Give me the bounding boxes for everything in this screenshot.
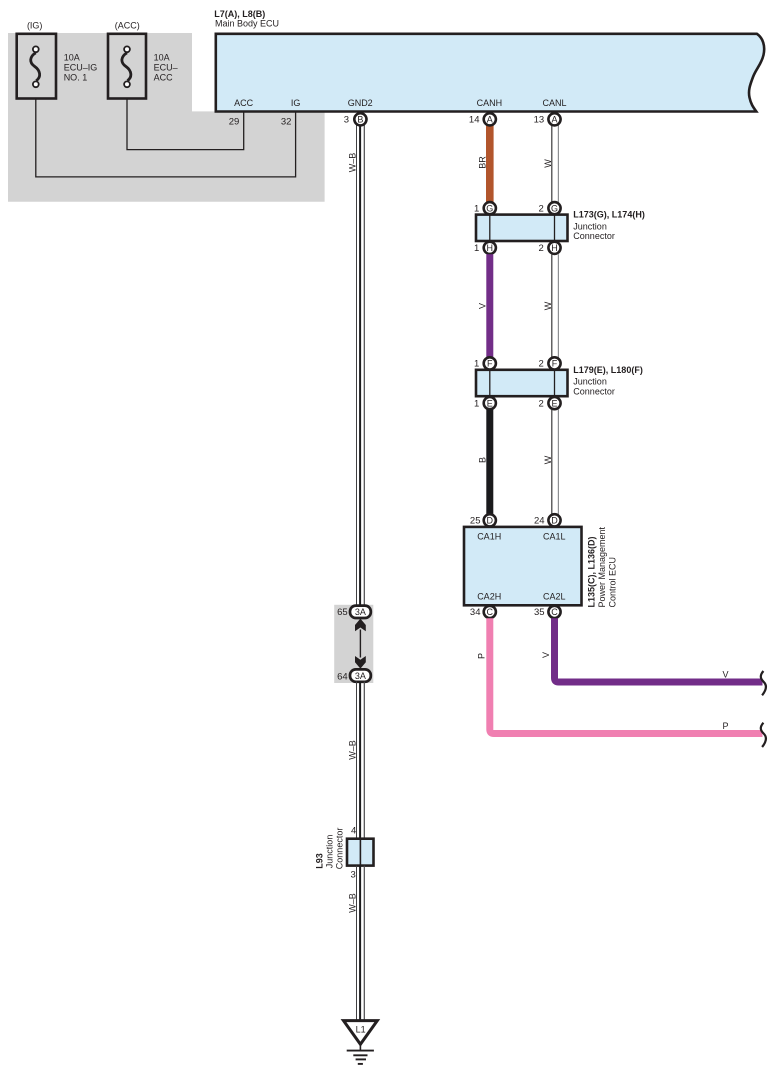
svg-text:3: 3 (344, 114, 349, 125)
svg-text:25: 25 (470, 515, 481, 526)
wire GND2 W-B segment 3 (L93 to ground L1) (357, 866, 365, 1021)
svg-text:C: C (551, 607, 558, 617)
svg-text:V: V (541, 652, 551, 658)
svg-text:29: 29 (229, 117, 240, 128)
svg-text:32: 32 (281, 117, 292, 128)
svg-text:IG: IG (291, 98, 301, 108)
svg-text:W–B: W–B (348, 893, 358, 913)
svg-text:GND2: GND2 (348, 98, 373, 108)
svg-text:BR: BR (478, 156, 488, 169)
junction connector L93 box (347, 839, 374, 866)
svg-text:1: 1 (474, 243, 479, 254)
svg-text:2: 2 (539, 203, 544, 214)
harness shading panel (8, 33, 325, 202)
continuation squiggle P (761, 723, 766, 747)
svg-text:E: E (551, 398, 557, 408)
ground bars (347, 1051, 374, 1064)
svg-text:2: 2 (539, 359, 544, 370)
svg-text:Connector: Connector (335, 828, 345, 870)
svg-text:P: P (477, 653, 487, 659)
svg-text:D: D (551, 515, 558, 525)
wire GND2 W-B segment 1 (pin 3B to connector 65) (357, 123, 365, 606)
continuation squiggle V (761, 671, 766, 695)
junction connector L179(E), L180(F) box (476, 370, 568, 396)
svg-text:14: 14 (469, 114, 480, 125)
wire B segment (E to D) (486, 409, 493, 514)
svg-text:Junction: Junction (573, 377, 607, 387)
svg-text:CA2H: CA2H (477, 592, 501, 602)
svg-text:CANL: CANL (542, 98, 566, 108)
wire GND2 W-B segment 2 (connector 64 to L93) (357, 682, 365, 840)
fuse (IG) 10A ECU-IG NO. 1 (17, 34, 56, 99)
svg-text:H: H (487, 243, 494, 253)
svg-text:F: F (552, 359, 558, 369)
mating arrow up (355, 619, 366, 632)
wire P (CA2H pin 34 to right edge) (490, 618, 763, 733)
svg-text:W–B: W–B (348, 740, 358, 760)
svg-text:W–B: W–B (348, 153, 358, 173)
svg-text:35: 35 (534, 607, 545, 618)
Power Management Control ECU box L135(C), L136(D) (464, 527, 582, 605)
wire CANL W segment 1 (pin 13A to junction G) (552, 123, 559, 203)
svg-text:3A: 3A (355, 607, 366, 617)
wire CANL W segment 3 (E to D) (552, 409, 559, 514)
svg-text:C: C (487, 607, 494, 617)
svg-text:L93: L93 (315, 853, 325, 869)
svg-text:34: 34 (470, 607, 481, 618)
svg-text:G: G (486, 203, 493, 213)
svg-text:L179(E), L180(F): L179(E), L180(F) (573, 365, 643, 375)
svg-text:(IG): (IG) (27, 21, 43, 31)
svg-text:65: 65 (337, 607, 348, 618)
svg-text:Connector: Connector (573, 231, 615, 241)
svg-text:1: 1 (474, 398, 479, 409)
svg-text:V: V (478, 303, 488, 309)
svg-text:2: 2 (539, 398, 544, 409)
svg-text:E: E (487, 398, 493, 408)
svg-text:1: 1 (474, 203, 479, 214)
svg-text:W: W (543, 301, 553, 310)
svg-text:3A: 3A (355, 671, 366, 681)
svg-text:W: W (543, 455, 553, 464)
svg-text:D: D (487, 515, 494, 525)
svg-text:Main Body ECU: Main Body ECU (215, 19, 279, 29)
svg-text:B: B (357, 114, 363, 124)
ground stem (359, 1044, 361, 1050)
svg-text:P: P (723, 721, 729, 731)
svg-text:CA2L: CA2L (543, 592, 566, 602)
svg-text:Power Management: Power Management (597, 526, 607, 607)
svg-text:L135(C), L136(D): L135(C), L136(D) (586, 536, 596, 607)
svg-text:H: H (551, 243, 558, 253)
svg-text:13: 13 (534, 114, 545, 125)
svg-text:1: 1 (474, 359, 479, 370)
svg-text:4: 4 (351, 826, 356, 837)
svg-text:(ACC): (ACC) (115, 21, 140, 31)
fuse (ACC) 10A ECU-ACC (108, 34, 146, 99)
mating arrow down (355, 656, 366, 669)
svg-text:Junction: Junction (573, 221, 607, 231)
wire CANH BR segment (pin 14A to junction G) (486, 123, 494, 203)
svg-text:B: B (478, 457, 488, 463)
svg-text:3: 3 (351, 869, 356, 880)
svg-text:CA1L: CA1L (543, 532, 566, 542)
junction connector L173(G), L174(H) box (476, 215, 568, 241)
wire V segment (H to F) (486, 254, 493, 357)
wire: IG fuse to Main Body ECU pin 32 (36, 86, 296, 177)
wire CANL W segment 2 (H to F) (552, 254, 559, 357)
in-line connector 65/64 shading (334, 605, 373, 683)
svg-text:Control ECU: Control ECU (607, 557, 617, 608)
svg-text:ACC: ACC (234, 98, 254, 108)
svg-text:L1: L1 (356, 1025, 366, 1035)
svg-text:CANH: CANH (477, 98, 503, 108)
svg-text:G: G (551, 203, 558, 213)
svg-text:Junction: Junction (325, 835, 335, 869)
svg-text:CA1H: CA1H (477, 532, 501, 542)
arrow shaft (359, 630, 361, 658)
svg-text:24: 24 (534, 515, 545, 526)
wire: ACC fuse to Main Body ECU pin 29 (127, 86, 244, 150)
svg-text:A: A (487, 114, 493, 124)
svg-text:2: 2 (539, 243, 544, 254)
Main Body ECU box (216, 34, 764, 112)
svg-text:L173(G), L174(H): L173(G), L174(H) (573, 210, 645, 220)
svg-text:V: V (723, 670, 729, 680)
ground L1 triangle (344, 1021, 378, 1045)
svg-text:F: F (487, 359, 493, 369)
svg-text:A: A (551, 114, 557, 124)
wire V (CA2L pin 35 to right edge) (555, 618, 763, 682)
svg-text:Connector: Connector (573, 386, 615, 396)
svg-text:W: W (543, 159, 553, 168)
svg-text:64: 64 (337, 671, 348, 682)
